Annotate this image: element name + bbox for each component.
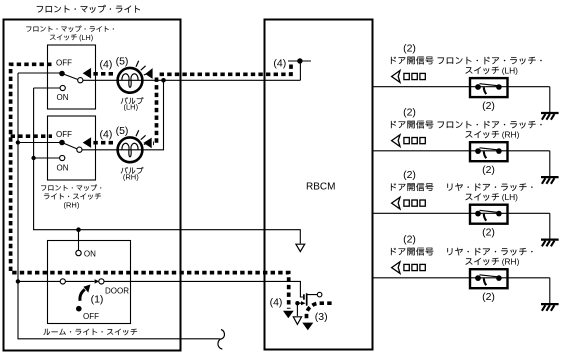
- svg-text:RBCM: RBCM: [306, 181, 335, 192]
- svg-text:ON: ON: [57, 163, 69, 172]
- svg-text:(4): (4): [270, 297, 283, 309]
- svg-text:(1): (1): [91, 294, 104, 306]
- svg-text:(LH): (LH): [502, 192, 518, 202]
- svg-text:(2): (2): [403, 107, 416, 119]
- svg-text:(2): (2): [482, 164, 495, 176]
- svg-text:(RH): (RH): [502, 130, 520, 140]
- svg-text:(2): (2): [403, 234, 416, 246]
- svg-text:OFF: OFF: [56, 59, 72, 68]
- svg-text:DOOR: DOOR: [105, 287, 129, 296]
- svg-text:OFF: OFF: [83, 312, 99, 321]
- svg-text:(2): (2): [482, 100, 495, 112]
- svg-text:(LH): (LH): [502, 66, 518, 76]
- svg-text:(LH): (LH): [79, 33, 93, 42]
- svg-text:(2): (2): [403, 169, 416, 181]
- svg-text:OFF: OFF: [56, 130, 72, 139]
- svg-text:ON: ON: [84, 249, 96, 258]
- svg-text:(2): (2): [482, 227, 495, 239]
- svg-text:(5): (5): [116, 55, 129, 67]
- svg-text:(RH): (RH): [63, 200, 79, 209]
- svg-text:(RH): (RH): [123, 172, 139, 181]
- svg-text:(5): (5): [116, 125, 129, 137]
- svg-text:(3): (3): [315, 311, 328, 323]
- svg-text:(4): (4): [273, 57, 286, 69]
- svg-text:(4): (4): [100, 128, 113, 140]
- svg-text:(RH): (RH): [502, 257, 520, 267]
- svg-text:(2): (2): [482, 291, 495, 303]
- svg-text:(4): (4): [100, 59, 113, 71]
- svg-text:(2): (2): [403, 43, 416, 55]
- svg-text:ON: ON: [57, 93, 69, 102]
- svg-text:(LH): (LH): [124, 103, 139, 112]
